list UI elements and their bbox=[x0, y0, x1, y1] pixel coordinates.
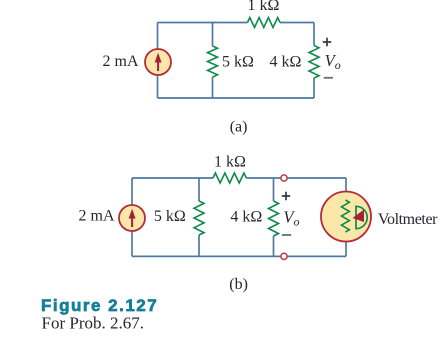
wire: (b) bottom wire bbox=[132, 255, 346, 257]
wire: (b) 4k branch bbox=[273, 178, 275, 201]
wire: (b) top wire middle segment bbox=[246, 177, 346, 179]
resistor 4kOhm (a) vertical bbox=[309, 46, 319, 79]
resistor 1kOhm (b) horizontal bbox=[213, 173, 246, 183]
voltmeter M1 bbox=[321, 192, 371, 242]
wire: (a) top wire left segment bbox=[158, 22, 248, 24]
svg-text:Figure 2.127: Figure 2.127 bbox=[41, 296, 158, 315]
label minus (a) bbox=[324, 77, 333, 79]
terminal node top (b) bbox=[281, 175, 287, 181]
resistor R 1kOhm (a) horizontal bbox=[248, 18, 281, 28]
svg-text:1 kΩ: 1 kΩ bbox=[214, 154, 246, 171]
wire: (a) left branch bbox=[157, 23, 159, 99]
current source I2 2mA (b) bbox=[119, 205, 145, 231]
wire: (a) right branch (4k) bbox=[313, 23, 315, 46]
label + (a) bbox=[323, 38, 331, 46]
wire: (a) middle branch (5k) bbox=[212, 23, 214, 47]
svg-text:5 kΩ: 5 kΩ bbox=[154, 208, 186, 225]
wire: (a) top wire right segment bbox=[280, 22, 314, 24]
svg-text:Vo: Vo bbox=[283, 207, 299, 228]
label minus (b) bbox=[282, 234, 291, 236]
svg-text:2 mA: 2 mA bbox=[79, 208, 115, 225]
svg-text:For Prob. 2.67.: For Prob. 2.67. bbox=[42, 313, 144, 332]
wire: (b) voltmeter branch bbox=[345, 178, 347, 200]
resistor 4kOhm (b) vertical bbox=[269, 201, 279, 236]
voltmeter scale arc bbox=[356, 206, 367, 228]
svg-text:2 mA: 2 mA bbox=[103, 53, 139, 70]
svg-text:4 kΩ: 4 kΩ bbox=[269, 53, 301, 70]
current source I1 2mA (a) bbox=[145, 49, 171, 75]
terminal node bottom (b) bbox=[281, 253, 287, 259]
svg-text:Vo: Vo bbox=[325, 51, 341, 72]
label + (b) bbox=[282, 192, 290, 200]
voltmeter needle bbox=[353, 210, 365, 223]
wire: (b) top wire left segment bbox=[132, 177, 213, 179]
svg-text:(a): (a) bbox=[230, 119, 248, 136]
svg-text:1 kΩ: 1 kΩ bbox=[248, 0, 280, 14]
svg-text:Voltmeter: Voltmeter bbox=[378, 211, 438, 228]
voltmeter internal resistor bbox=[341, 200, 349, 232]
svg-text:4 kΩ: 4 kΩ bbox=[230, 209, 262, 226]
resistor 5kOhm (a) vertical bbox=[208, 46, 218, 77]
svg-text:5 kΩ: 5 kΩ bbox=[222, 53, 254, 70]
wire: (a) bottom wire bbox=[158, 97, 315, 99]
wire: (b) 5k branch bbox=[198, 178, 200, 201]
svg-text:(b): (b) bbox=[229, 276, 248, 293]
wire: (b) left branch bbox=[131, 178, 133, 256]
resistor 5kOhm (b) vertical bbox=[194, 201, 204, 235]
